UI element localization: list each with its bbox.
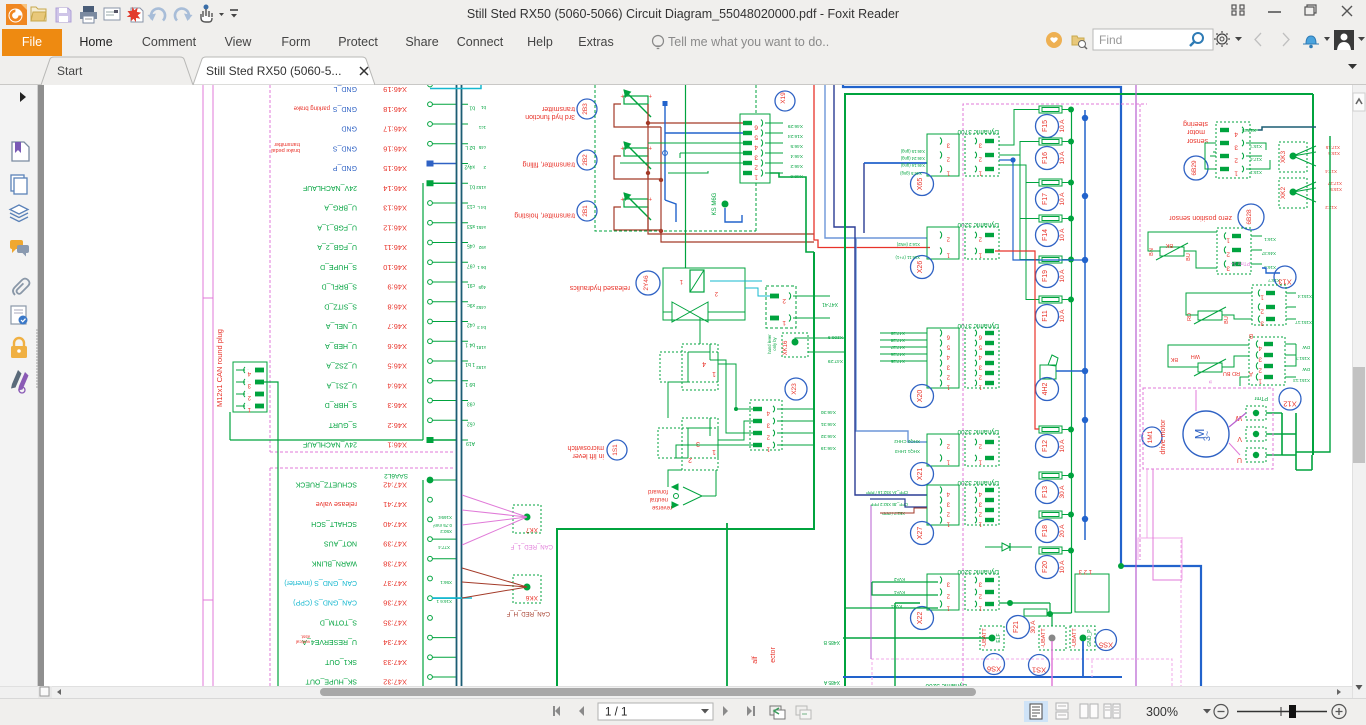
svg-text:X46:16 (gng): X46:16 (gng) [900,163,925,168]
svg-text:motor: motor [1186,128,1205,135]
svg-text:s53: s53 [467,223,475,229]
svg-text:X47:41: X47:41 [822,301,838,307]
svg-text:B: B [1249,332,1253,338]
svg-text:U_ZS1_A: U_ZS1_A [326,381,357,388]
wire 6B29 left loop [1205,143,1216,169]
svg-text:U_FGB_1_A: U_FGB_1_A [317,223,357,230]
transmitter 2B1 [514,193,661,230]
svg-text:X46:15 (gng): X46:15 (gng) [900,149,925,154]
svg-text:Still Sted RX50 (5060-5066) Ci: Still Sted RX50 (5060-5066) Circuit Diag… [467,7,899,21]
svg-text:X16:6 1: X16:6 1 [436,599,452,604]
svg-text:X485 B: X485 B [823,639,840,645]
label XS6 [984,654,1005,675]
terminal -UBATT ELF [980,626,1004,650]
svg-text:X46:12: X46:12 [383,223,407,232]
connector X47 pin 32 [305,675,456,687]
connector X46 pin 7 [326,319,475,331]
wire 6B28 right [1262,268,1280,283]
connector X47 pin 40 [311,517,432,529]
svg-text:b4 1: b4 1 [465,341,475,347]
svg-text:20 A: 20 A [1059,524,1066,538]
svg-text:10 A: 10 A [1059,309,1066,323]
svg-text:x192: x192 [476,365,486,370]
svg-text:U_ZSZ_A: U_ZSZ_A [326,362,357,369]
label 1M1 [1142,419,1167,455]
fuse F13 [1036,472,1075,504]
wire X26 red right [995,251,1039,429]
label X40 wires [432,515,452,604]
frame border line left [202,85,204,686]
svg-text:4: 4 [702,360,706,367]
node XK16 [767,333,845,364]
svg-text:2B3: 2B3 [582,103,589,115]
wire 6B29 teal [1258,127,1316,130]
svg-text:A19: A19 [466,440,475,446]
connector X47 pin 41 [316,497,433,509]
svg-text:neutral: neutral [650,496,668,502]
svg-text:2: 2 [782,297,786,304]
svg-text:X46:10: X46:10 [383,263,407,272]
boundary inverter box [557,252,814,686]
svg-text:X17:26: X17:26 [1241,128,1256,133]
svg-text:XK7: XK7 [525,526,538,533]
svg-text:X46:5 (gng): X46:5 (gng) [900,171,922,176]
svg-text:XHQ2 CHH2: XHQ2 CHH2 [894,439,920,444]
icon undo [148,9,166,21]
module Dynamic 3700 X20 [911,322,1000,408]
module Dynamic 3200 X26 [911,221,1000,279]
svg-text:SK_HUPE_OUT: SK_HUPE_OUT [305,678,357,685]
connector X47 pin 33 [324,655,456,667]
svg-text:10 A: 10 A [1059,439,1066,453]
svg-text:GND_S: GND_S [333,105,357,112]
svg-text:Still Sted RX50 (5060-5...: Still Sted RX50 (5060-5... [206,64,341,78]
svg-text:c45: c45 [467,243,475,249]
svg-text:brake pedal: brake pedal [271,147,300,153]
svg-text:X47:29: X47:29 [827,358,843,364]
svg-text:2Y46: 2Y46 [643,275,650,291]
wire green mid vertical [685,84,687,268]
svg-text:b4 L: b4 L [477,205,486,210]
svg-text:X206:9: X206:9 [827,334,843,340]
icon foxit logo [6,4,27,25]
icon print [80,6,97,23]
switch S1b [658,418,718,470]
wire motor pink down [1138,469,1182,580]
svg-text:3: 3 [1226,265,1230,272]
icon security [11,338,27,358]
svg-text:transmitter, filling: transmitter, filling [522,161,575,168]
svg-text:0.75 mm²: 0.75 mm² [432,523,452,528]
icon attachment [13,279,30,296]
connector X47 pin 42 [295,477,456,490]
terminal -UBATT GND_P [1070,626,1095,650]
connector X47 pin 38 [311,556,456,568]
wire motor magenta [1196,390,1246,455]
device KS M6G [712,192,742,222]
label XS1 [1029,655,1050,676]
svg-text:X17:4: X17:4 [1250,157,1262,162]
module Dynamic 3200 XS [1018,568,1109,695]
icon star document [127,7,143,22]
wire fuse bus [1050,109,1072,613]
svg-text:KVA2: KVA2 [893,577,905,582]
svg-text:X22: X22 [917,612,924,625]
svg-text:X151:13: X151:13 [1293,378,1310,383]
wire X22 green thick [726,523,728,686]
svg-text:alf: alf [752,656,759,663]
connector X46 pin 17 [341,122,468,134]
svg-text:4: 4 [754,144,758,151]
svg-text:5: 5 [754,134,758,141]
svg-text:X46:3: X46:3 [387,401,407,410]
resistor 6B28 [1148,232,1217,268]
wire X19 pins green [620,143,743,173]
thermistor X13 [1186,293,1252,324]
svg-text:X46:9: X46:9 [387,283,407,292]
svg-text:6: 6 [754,124,758,131]
wire M12 plug to X46 bus [229,412,231,440]
svg-text:X46:29: X46:29 [787,123,803,129]
svg-text:30 A: 30 A [1059,485,1066,499]
icon reward [1046,32,1062,48]
wire green bottom corner [895,603,920,690]
svg-text:1M1: 1M1 [1147,430,1154,443]
svg-text:S_BRFL_D: S_BRFL_D [322,283,357,290]
connector X46 pin 2 [328,418,475,430]
svg-text:X46:32: X46:32 [820,433,836,439]
connector X46 pin 11 [317,240,475,252]
wire X27 left labels [866,490,908,516]
svg-text:X15:?: X15:? [1250,144,1262,149]
svg-text:n: n [1208,380,1214,383]
icon hand tool [201,5,224,23]
svg-text:3: 3 [1258,356,1262,363]
svg-text:x152: x152 [476,185,486,190]
connector 6B29 plug [1216,122,1262,178]
svg-text:XK6: XK6 [525,594,538,601]
fuse F15 [1036,106,1075,138]
icon certificates [11,306,28,325]
svg-text:WH: WH [1191,353,1200,359]
diode F20 [985,543,1032,551]
svg-text:X46:6: X46:6 [387,342,407,351]
frame tick [203,298,213,600]
svg-text:X46:4: X46:4 [790,153,803,159]
svg-text:4: 4 [1258,345,1262,352]
svg-text:S_GURT: S_GURT [328,421,357,428]
label zero position sensor [1169,204,1264,230]
svg-text:XK3: XK3 [1280,150,1287,163]
svg-text:3: 3 [1234,144,1238,151]
boundary motor dashed [1143,388,1273,469]
svg-text:asst.: asst. [300,635,310,640]
svg-text:transmitter: transmitter [541,105,575,112]
svg-text:x9c: x9c [467,302,475,308]
wire X21 left labels [894,439,920,454]
svg-text:ELF: ELF [996,633,1002,642]
connector X47 pin 35 [320,616,433,628]
svg-text:parking brake: parking brake [293,104,330,110]
svg-text:steering: steering [1183,120,1208,127]
fuse F18 [1036,511,1075,543]
svg-text:-UBATT: -UBATT [982,628,988,648]
junction [1082,115,1088,121]
svg-text:F17: F17 [1042,193,1049,205]
label XS5 [1096,630,1117,651]
label X65 left wires [895,149,925,260]
svg-text:X485 A: X485 A [823,679,840,685]
icon bookmarks [12,142,29,161]
svg-text:b4 3: b4 3 [477,325,486,330]
frame border line left inner [212,85,214,686]
boundary pink dashed bottom [872,659,1172,690]
svg-text:2: 2 [1234,157,1238,164]
horn 4H2 [1036,355,1089,401]
svg-text:GND_P: GND_P [1087,629,1093,647]
svg-text:X46:24 (gng): X46:24 (gng) [900,156,925,161]
connector X23 [750,400,836,452]
svg-text:X77:4: X77:4 [438,545,450,550]
svg-text:X46:1: X46:1 [387,441,407,450]
svg-text:BU: BU [1186,253,1192,261]
svg-text:b1: b1 [480,105,486,110]
connector X47 pin 39 [324,537,456,549]
svg-text:WARN_BLINK: WARN_BLINK [311,559,357,566]
svg-text:X46:6: X46:6 [790,173,803,179]
connector X13 plug [1252,285,1312,327]
svg-text:RD: RD [1187,313,1193,321]
fuse F11 [1036,296,1075,328]
svg-text:F13: F13 [1042,486,1049,498]
svg-text:X151:4: X151:4 [1297,294,1312,299]
svg-text:2: 2 [1258,367,1262,374]
svg-text:X50:2: X50:2 [440,529,452,534]
fuse F21 [1007,609,1054,639]
svg-text:GND_L: GND_L [334,85,357,92]
wire X19 pin5 blue [663,101,744,222]
svg-text:2B1: 2B1 [582,205,589,217]
svg-text:-UBATT: -UBATT [1041,628,1047,648]
svg-text:c452: c452 [476,305,486,310]
svg-text:6B29: 6B29 [1191,160,1198,176]
boundary dashed pink right [1180,540,1182,686]
svg-text:X46:2: X46:2 [790,163,803,169]
svg-text:c13: c13 [467,203,475,209]
svg-text:X12: X12 [1283,400,1296,409]
svg-text:+: + [620,144,624,150]
svg-text:3: 3 [1260,320,1264,327]
connector 6B28 plug [1217,228,1276,274]
fuse F12 [1036,426,1075,458]
fuse F14 [1036,215,1075,247]
svg-text:X47:29: X47:29 [890,331,905,336]
svg-text:XS6: XS6 [987,665,1001,674]
svg-text:1: 1 [782,319,786,326]
svg-text:A: A [1249,370,1253,376]
svg-text:3: 3 [696,440,700,447]
svg-text:+: + [648,92,652,98]
svg-text:1 b1: 1 b1 [465,361,475,367]
svg-text:U_FGB_2_A: U_FGB_2_A [317,243,357,250]
svg-text:b1: b1 [469,183,475,189]
svg-text:XHQ1 1HH3: XHQ1 1HH3 [894,449,920,454]
node XK2 [1279,178,1342,210]
svg-text:X47:36: X47:36 [383,599,407,608]
svg-text:X16:1: X16:1 [1264,237,1276,242]
svg-text:U_BRG_A: U_BRG_A [324,204,357,211]
svg-text:GND_S: GND_S [333,144,357,151]
wire violet vertical [1135,84,1137,686]
icon avatar [1334,30,1365,50]
icon open [31,7,46,21]
connector X46 pin 5 [326,359,475,371]
svg-text:-UBATT: -UBATT [1072,628,1078,648]
svg-text:+: + [620,195,624,201]
svg-text:1: 1 [712,448,716,455]
connector X47 pin 34 [296,635,456,648]
svg-text:S_HUPE_D: S_HUPE_D [320,263,357,270]
svg-text:10 A: 10 A [1059,151,1066,165]
svg-text:x451: x451 [476,225,486,230]
svg-text:DW: DW [1302,367,1310,372]
svg-text:2: 2 [688,456,692,463]
svg-text:c52: c52 [467,420,475,426]
connector valve plug [766,286,830,328]
wire UBATT down [1052,613,1083,690]
svg-text:PTmr: PTmr [1254,395,1268,401]
svg-text:microswitch: microswitch [567,444,604,451]
transmitter 2B3 [525,90,661,127]
wire dashed border X47 block [270,468,455,686]
label released hydraulics [569,271,660,295]
svg-text:c97: c97 [467,262,475,268]
wire X19 pin1 down [770,173,814,252]
svg-text:3~: 3~ [1202,431,1212,441]
connector X46 pin 9 [322,280,475,292]
connector X46 pin 14 [303,180,475,193]
svg-text:1: 1 [1260,294,1264,301]
svg-text:10 A: 10 A [1059,228,1066,242]
svg-text:X47:26: X47:26 [890,352,905,357]
svg-text:transmitter, hoisting: transmitter, hoisting [514,212,575,219]
resistor X12 [1168,345,1249,384]
svg-text:X16:2 (HN2): X16:2 (HN2) [896,242,920,247]
svg-text:only by: only by [772,336,777,350]
label X23 [785,378,807,400]
svg-text:2: 2 [1226,251,1230,258]
svg-text:SCHUETZ_RUECK: SCHUETZ_RUECK [295,481,357,488]
svg-text:X12:2: X12:2 [1325,205,1337,210]
svg-text:F16: F16 [1042,152,1049,164]
svg-text:X47:39: X47:39 [383,540,407,549]
wire steel blue [825,84,927,442]
svg-text:10 A: 10 A [1059,192,1066,206]
wire X46:1 to M12 plug [230,437,433,443]
svg-text:U_NEL_A: U_NEL_A [326,322,357,329]
svg-text:X46:19: X46:19 [820,445,836,451]
motor 1M1 [1183,411,1229,457]
label X19 [775,91,795,111]
svg-text:hand lever: hand lever [767,334,772,354]
svg-text:X46:7: X46:7 [387,322,407,331]
svg-text:CPP_JB X52:2 PPP: CPP_JB X52:2 PPP [870,502,908,507]
svg-text:X151:17: X151:17 [1295,320,1312,325]
connector X12 plug [1249,332,1310,385]
svg-text:S_SITZ_D: S_SITZ_D [324,302,357,309]
wire blue bottom X485A [823,677,1122,685]
connector X46 pin 18 [293,102,475,114]
wire transmitter loop right [646,104,814,242]
svg-text:X46:30: X46:30 [820,409,836,415]
svg-text:c42: c42 [467,322,475,328]
label microswitch 1S1 [567,440,627,460]
label half connector [752,647,777,664]
svg-text:10 A: 10 A [1059,269,1066,283]
svg-text:6B28: 6B28 [1246,209,1253,225]
wire fuses input [999,110,1039,300]
svg-text:forward: forward [648,488,668,494]
svg-text:X46:37: X46:37 [1261,251,1276,256]
connector X47 pin 36 [293,596,462,608]
wire X12 links [1240,344,1296,386]
svg-text:reverse: reverse [651,504,672,510]
svg-text:CAN_RED_1_F: CAN_RED_1_F [510,543,553,549]
svg-text:in lift lever: in lift lever [572,452,604,459]
svg-text:X46:15: X46:15 [383,164,407,173]
svg-text:NOT_AUS: NOT_AUS [324,540,357,547]
connector X46 pin 6 [325,339,475,351]
svg-text:X151:?: X151:? [1295,356,1310,361]
svg-text:X47:35: X47:35 [383,618,407,627]
switch S1a [660,344,718,390]
svg-text:KVA1: KVA1 [890,604,902,609]
svg-text:X46:2: X46:2 [387,421,407,430]
svg-text:3rd hyd function: 3rd hyd function [525,113,575,120]
boundary transmitters dashed [595,85,756,231]
wire navy [834,84,927,495]
wire violet mid [870,505,872,659]
terminal -UBATT XS1 [1039,626,1066,650]
svg-text:Find: Find [1099,33,1122,47]
svg-text:S_TOTM_D: S_TOTM_D [320,618,357,625]
wire blue box bottom [1118,563,1201,686]
svg-text:X47:27: X47:27 [890,345,905,350]
svg-text:X16:11 (Y+1): X16:11 (Y+1) [895,255,920,260]
svg-text:F14: F14 [1042,229,1049,241]
wire green bottom X485B [823,638,992,645]
svg-text:24V_NACHLAUF: 24V_NACHLAUF [303,184,357,191]
svg-text:F18: F18 [1042,525,1049,537]
svg-text:X46:11: X46:11 [384,243,407,252]
svg-text:SK1_OUT: SK1_OUT [324,658,357,665]
svg-text:F21: F21 [1013,621,1020,633]
svg-text:CPP_JA X52:16 / PPP: CPP_JA X52:16 / PPP [866,490,908,495]
connector X46 pin 10 [320,260,475,272]
connector X46 pin 15 [333,161,475,174]
wire X47 bus vertical [422,480,424,686]
wire royal top [843,84,1121,566]
wire X27 navy bundle [870,499,927,513]
svg-text:+: + [620,92,624,98]
svg-text:released hydraulics: released hydraulics [569,284,630,291]
svg-text:x4y2: x4y2 [464,164,475,170]
label X13 [1231,260,1296,288]
svg-text:GND: GND [341,125,357,132]
svg-text:X46:13: X46:13 [383,204,407,213]
wire CAN top cyan [430,85,481,598]
svg-text:zero position sensor: zero position sensor [1169,214,1232,221]
